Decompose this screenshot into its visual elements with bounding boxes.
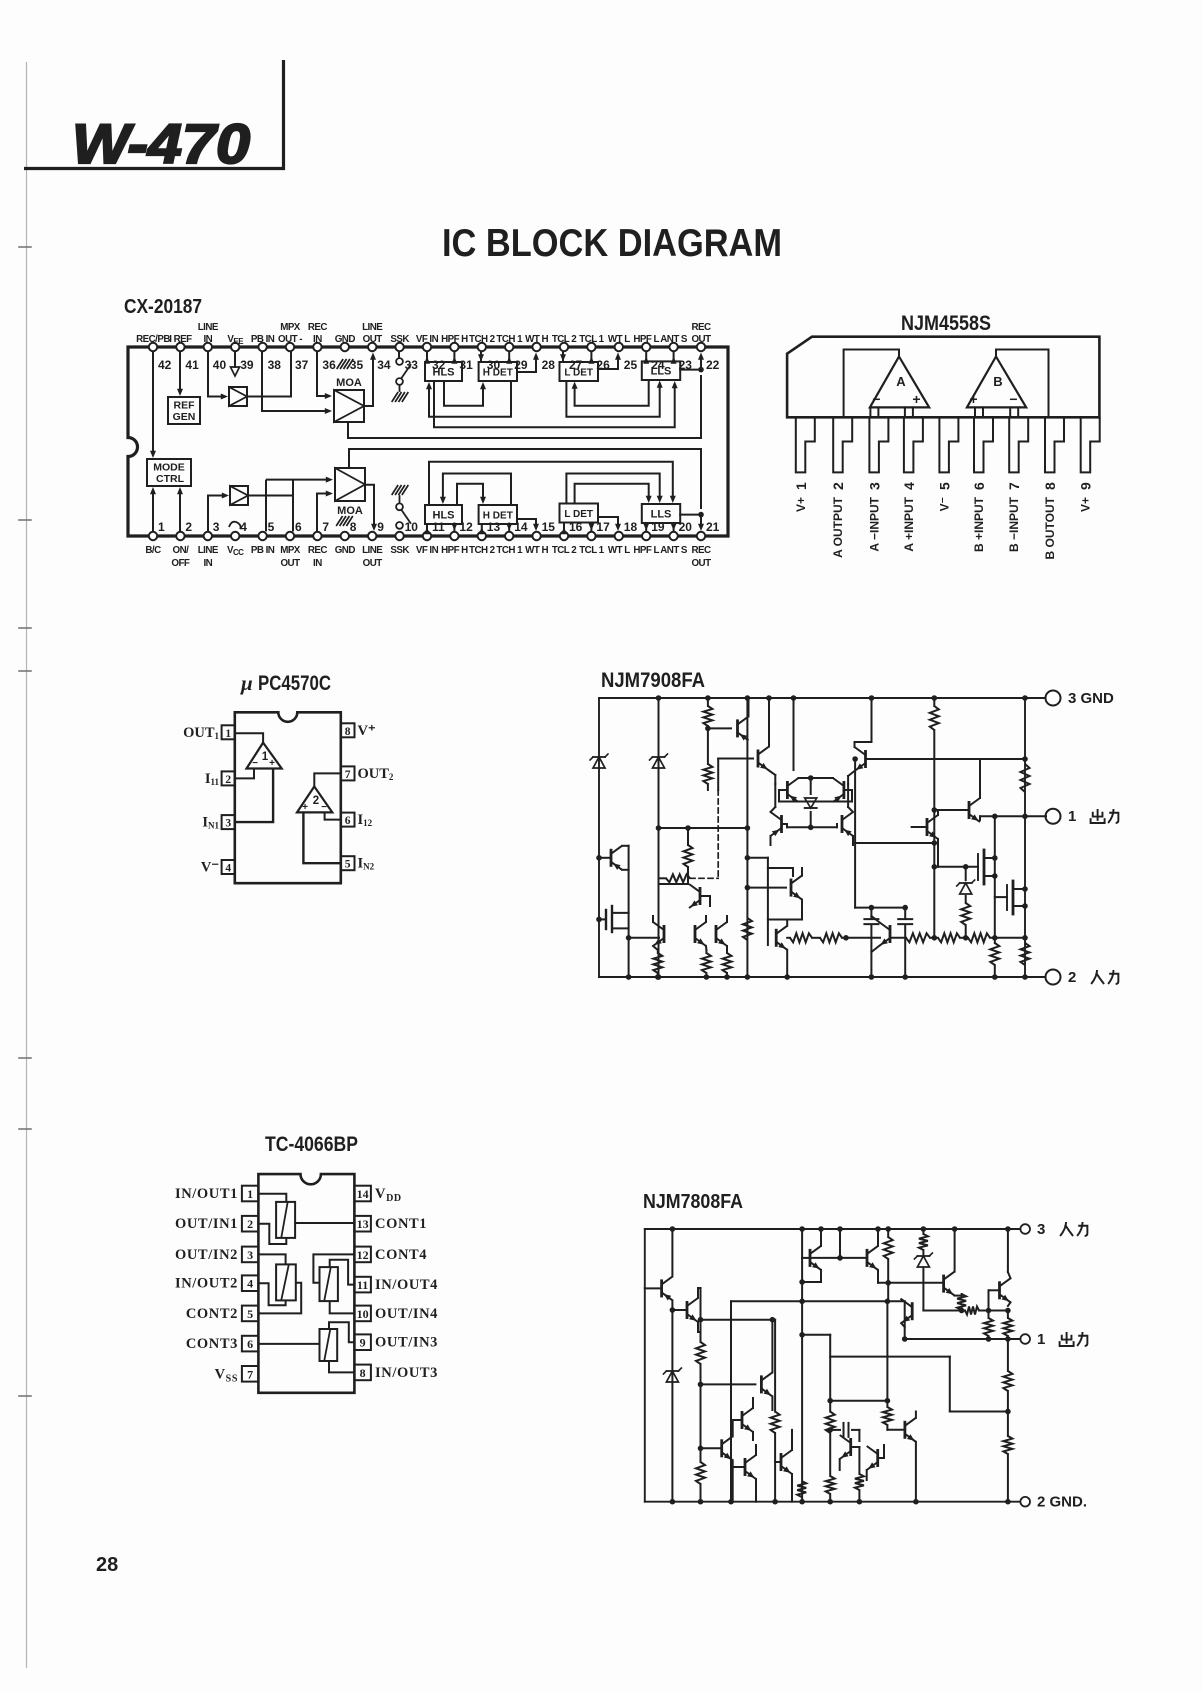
wire pin31 to block xyxy=(451,352,457,364)
wire output node xyxy=(980,814,1046,820)
svg-text:4: 4 xyxy=(901,482,917,490)
transistor Q15 bottom-left c xyxy=(716,916,727,950)
pin 42 (top) xyxy=(136,334,172,372)
pin 24 (top) xyxy=(633,334,664,372)
wire pin42 to MODE CTRL xyxy=(150,352,156,458)
svg-text:+: + xyxy=(269,758,275,769)
package outline TC-4066BP xyxy=(258,1174,354,1393)
resistor R13 xyxy=(990,938,999,980)
wire H843 link xyxy=(852,756,937,846)
pin 8 NJM4558S xyxy=(1042,417,1064,559)
margin rule left xyxy=(26,62,28,1668)
wire pin20 to block xyxy=(671,523,677,531)
svg-text:TCH 2: TCH 2 xyxy=(469,334,496,345)
transistor Q1 top-left xyxy=(645,1226,675,1310)
wire pin8 to SW3 xyxy=(329,1361,354,1373)
wire op-amp B output to pin8 xyxy=(996,350,1049,418)
vertical bus V672 xyxy=(670,1307,676,1504)
wire pin36 to MOA1 xyxy=(317,352,332,399)
transistor QE low sense xyxy=(887,1412,918,1505)
transistor Q4 center xyxy=(701,1317,776,1410)
svg-text:3: 3 xyxy=(866,482,882,490)
svg-text:NJM7908FA: NJM7908FA xyxy=(601,669,705,692)
svg-text:CONT1: CONT1 xyxy=(375,1216,427,1232)
pin 10 TC-4066BP xyxy=(354,1306,438,1322)
svg-text:LLS: LLS xyxy=(651,366,672,378)
resistor R11 top right xyxy=(930,695,939,938)
wire op-amp A output to pin2 xyxy=(844,350,899,418)
transistor Q11 bottom center-left xyxy=(731,1445,756,1502)
pin 7 uPC4570C xyxy=(341,766,394,782)
wire pin11 to SW4 xyxy=(330,1260,355,1285)
pin 37 (top) xyxy=(278,322,309,372)
svg-text:A −INPUT: A −INPUT xyxy=(867,496,881,551)
vertical bus V830 xyxy=(826,1335,835,1505)
svg-text:PB IN: PB IN xyxy=(251,545,275,556)
LLS block (bottom) xyxy=(642,504,680,523)
transistor Q12 xyxy=(747,868,802,920)
wire pin27 into L DET xyxy=(560,352,566,362)
package outline uPC4570C xyxy=(235,712,341,883)
svg-text:TC-4066BP: TC-4066BP xyxy=(265,1133,358,1156)
transistor Q13 mid lower xyxy=(731,1398,753,1440)
wire pin13 to block xyxy=(479,524,485,534)
svg-text:9: 9 xyxy=(1078,482,1094,490)
pin 2 (bottom) xyxy=(171,520,192,569)
svg-text:HPF H: HPF H xyxy=(441,545,468,556)
wire pin29 to block xyxy=(506,352,512,364)
svg-text:40: 40 xyxy=(213,358,227,372)
zener D4 with resistor xyxy=(957,864,975,938)
svg-text:B −INPUT: B −INPUT xyxy=(1007,496,1021,552)
wire H DET to pin15 xyxy=(517,519,539,531)
vertical bus V859 xyxy=(855,1447,864,1504)
wire H907 link xyxy=(855,843,908,910)
svg-text:CONT3: CONT3 xyxy=(186,1336,238,1352)
transistor Q4 xyxy=(689,884,710,908)
svg-text:8: 8 xyxy=(345,726,351,738)
svg-text:TCL 2: TCL 2 xyxy=(552,545,577,556)
resistor R4c xyxy=(723,950,732,980)
ground pin35 xyxy=(337,359,354,369)
vertical bus V775 xyxy=(771,1320,780,1505)
svg-text:OUT/IN3: OUT/IN3 xyxy=(375,1335,438,1351)
IC uPC4570C title xyxy=(240,671,331,695)
svg-text:TCL 1: TCL 1 xyxy=(579,334,604,345)
svg-text:7: 7 xyxy=(345,769,351,781)
svg-text:MPX: MPX xyxy=(280,545,301,556)
svg-text:A +INPUT: A +INPUT xyxy=(902,496,916,551)
terminal 1 output xyxy=(1046,808,1119,825)
pin 29 (top) xyxy=(496,334,527,372)
resistor R5 mid xyxy=(743,913,752,940)
wire pin13 CONT1 to SW1 xyxy=(295,1222,354,1224)
small resistor R bottom1 xyxy=(797,1481,806,1497)
feedback loop HLS-HDET inner (top) xyxy=(444,381,486,406)
wire ladder H858 xyxy=(747,858,768,945)
svg-text:SSK: SSK xyxy=(390,545,409,556)
svg-text:GEN: GEN xyxy=(173,411,196,423)
wire pin32 to block xyxy=(424,352,430,364)
svg-text:12: 12 xyxy=(357,1248,369,1262)
svg-text:ANT S: ANT S xyxy=(660,545,688,556)
op-amp 2 uPC4570C xyxy=(297,787,332,814)
vertical bus V802 xyxy=(799,1226,805,1504)
wire pin19 to block xyxy=(643,523,649,531)
IC TC-4066BP title xyxy=(265,1133,358,1156)
svg-text:H DET: H DET xyxy=(483,368,513,379)
feedback loop LDET-LLS inner (bottom) xyxy=(575,484,652,504)
feedback loop HLS-LLS long (bottom) xyxy=(429,462,676,505)
pin 28 (top) xyxy=(525,334,555,372)
svg-text:REC/PB: REC/PB xyxy=(136,334,170,345)
VEE arrow pin39 xyxy=(231,352,240,376)
transistor Q6 xyxy=(718,695,775,790)
wire MOA2 out to pin9 xyxy=(365,485,377,531)
svg-text:4: 4 xyxy=(225,863,231,875)
svg-text:2: 2 xyxy=(830,482,846,490)
svg-text:−: − xyxy=(252,758,258,769)
output rail 1 xyxy=(905,1338,1020,1340)
schematic frame top rail (3 input) xyxy=(645,1228,1020,1230)
pin 40 (top) xyxy=(198,322,227,372)
pin 4 uPC4570C xyxy=(201,860,235,876)
junction node pin22 bus xyxy=(698,353,704,373)
transistor Q17 row mid xyxy=(871,916,890,958)
op-amp A xyxy=(870,357,929,408)
wire pin1 to MODE CTRL xyxy=(150,487,156,531)
op-amp A input stems xyxy=(870,407,913,417)
svg-text:REC: REC xyxy=(308,545,328,556)
wire top-right base rail xyxy=(866,756,1028,762)
feedback column V1007 xyxy=(1003,1339,1012,1504)
svg-text:B OUTOUT: B OUTOUT xyxy=(1043,496,1057,559)
pin 25 (top) xyxy=(608,334,638,372)
svg-text:MOA: MOA xyxy=(337,505,363,517)
svg-text:2: 2 xyxy=(225,774,231,786)
svg-text:7: 7 xyxy=(247,1367,253,1381)
svg-text:VSS: VSS xyxy=(215,1366,238,1384)
wire pin2 to op-amp1 -inp xyxy=(235,769,254,779)
svg-text:5: 5 xyxy=(268,520,275,534)
svg-text:IN: IN xyxy=(203,334,212,345)
pin 20 (bottom) xyxy=(660,520,692,556)
feedback loop wires xyxy=(830,1357,1008,1412)
transistor Q21 (mos) xyxy=(995,881,1028,914)
wire long vertical Vb3 xyxy=(745,698,751,980)
svg-text:VDD: VDD xyxy=(375,1186,402,1204)
svg-text:A OUTPUT: A OUTPUT xyxy=(831,496,845,558)
svg-text:IN/OUT2: IN/OUT2 xyxy=(175,1276,238,1292)
wire pin38 to MOA1 xyxy=(262,352,332,414)
svg-text:+: + xyxy=(912,391,920,407)
svg-text:TCH 1: TCH 1 xyxy=(496,545,523,556)
wire L DET to pin18 xyxy=(598,517,621,531)
pin 27 (top) xyxy=(552,334,583,372)
wire pin9 to SW3 xyxy=(329,1322,354,1342)
svg-text:V+: V+ xyxy=(1079,497,1093,512)
pin 41 (top) xyxy=(169,334,199,372)
svg-text:5: 5 xyxy=(247,1307,253,1321)
svg-text:IN: IN xyxy=(313,558,322,569)
resistor RV961 xyxy=(957,1294,966,1311)
IC NJM7808FA title xyxy=(643,1191,743,1213)
logo frame lines xyxy=(24,60,284,169)
svg-text:−: − xyxy=(872,391,880,407)
transistor Q8 mirror left xyxy=(779,778,811,802)
svg-text:21: 21 xyxy=(706,520,720,534)
HLS block (top) xyxy=(425,362,462,381)
wire base H1282 xyxy=(878,1280,944,1286)
wire pin30 into H DET xyxy=(478,352,484,362)
svg-text:L DET: L DET xyxy=(564,368,593,379)
svg-text:IC BLOCK DIAGRAM: IC BLOCK DIAGRAM xyxy=(442,222,782,265)
resistor R12 right rail xyxy=(1021,764,1030,792)
transistor QB high-side xyxy=(989,1226,1011,1306)
svg-text:ON/: ON/ xyxy=(173,545,190,556)
wire pin24 to block xyxy=(643,352,649,364)
pin 21 (bottom) xyxy=(691,520,719,569)
svg-text:LINE: LINE xyxy=(198,545,219,556)
long horizontal H1301 xyxy=(731,1299,905,1305)
svg-text:I11: I11 xyxy=(205,771,220,787)
op-amp MOA (top) xyxy=(334,377,364,422)
vertical bus Vb2 with resistors xyxy=(703,695,712,790)
pin 1 NJM4558S xyxy=(793,417,815,512)
svg-text:PC4570C: PC4570C xyxy=(258,672,331,695)
capacitor C1 xyxy=(830,1423,859,1437)
vertical bus V731 xyxy=(728,1301,734,1504)
wire L DET to pin25 xyxy=(598,353,621,370)
wire pin2 to SW1 xyxy=(258,1224,286,1244)
pin 10 (bottom) xyxy=(390,520,418,556)
svg-text:2: 2 xyxy=(1068,969,1076,986)
buffer amp A1 (top) xyxy=(229,387,247,406)
svg-text:VCC: VCC xyxy=(227,545,244,557)
terminal 3 input xyxy=(1020,1221,1087,1238)
transistor Q2 xyxy=(672,1288,700,1332)
pin 2 TC-4066BP xyxy=(175,1216,258,1232)
transistor QA driver xyxy=(938,1226,962,1295)
svg-text:IN/OUT4: IN/OUT4 xyxy=(375,1277,438,1293)
op-amp 1 uPC4570C xyxy=(247,743,282,769)
transistor Q20 (mos) xyxy=(978,850,995,884)
feedback loop HDET-HLS outer (bottom) xyxy=(440,474,511,506)
wire H1334 xyxy=(799,1332,830,1338)
svg-text:OUT: OUT xyxy=(363,334,383,345)
pin 5 TC-4066BP xyxy=(186,1306,259,1322)
resistor R14 xyxy=(1021,943,1030,965)
wire Vb6 xyxy=(992,816,998,938)
svg-text:14: 14 xyxy=(357,1187,369,1201)
wire op-amp1 out to pin1 xyxy=(235,733,263,742)
svg-text:6: 6 xyxy=(971,482,987,490)
wire vertical bus Vb1 xyxy=(626,846,632,980)
schematic frame bottom rail (2 input) xyxy=(599,976,1045,978)
svg-text:11: 11 xyxy=(432,520,445,534)
svg-text:28: 28 xyxy=(542,358,556,372)
svg-text:CONT4: CONT4 xyxy=(375,1247,427,1263)
svg-text:−: − xyxy=(321,802,327,813)
svg-text:8: 8 xyxy=(350,520,357,534)
svg-text:HPF H: HPF H xyxy=(441,334,468,345)
wire pin5 to MOA2 xyxy=(266,477,333,532)
svg-text:HLS: HLS xyxy=(433,367,455,379)
wire pin5 CONT2 to SW2 xyxy=(258,1283,301,1314)
svg-text:WT L: WT L xyxy=(608,545,630,556)
svg-text:6: 6 xyxy=(345,815,351,827)
wire pin1 to SW1 xyxy=(258,1194,286,1202)
svg-text:W-470: W-470 xyxy=(72,112,250,175)
svg-text:IN/OUT1: IN/OUT1 xyxy=(175,1186,238,1202)
pin 1 (bottom) xyxy=(145,520,165,556)
zener D1 xyxy=(590,754,608,768)
wire H DET to pin28 xyxy=(517,353,539,373)
svg-text:V⁻: V⁻ xyxy=(937,497,951,511)
transistor Q16 row driver xyxy=(768,920,790,980)
resistor R4b xyxy=(702,950,711,980)
transistor Q1 xyxy=(596,846,628,870)
pin 8 (bottom) xyxy=(335,520,357,556)
svg-text:OUT: OUT xyxy=(363,558,383,569)
pin 14 TC-4066BP xyxy=(354,1186,401,1204)
svg-text:7: 7 xyxy=(1006,482,1022,490)
pin 9 (bottom) xyxy=(362,520,384,569)
svg-text:28: 28 xyxy=(96,1554,118,1576)
svg-text:CONT2: CONT2 xyxy=(186,1306,238,1322)
pin 1 TC-4066BP xyxy=(175,1186,258,1202)
wire pin5 to op-amp2 +inp xyxy=(303,812,340,863)
HLS block (bottom) xyxy=(425,505,462,524)
IC CX-20187 title xyxy=(124,296,202,318)
wire H866 xyxy=(934,866,978,868)
svg-text:TCH 1: TCH 1 xyxy=(496,334,523,345)
SSK switch pin10 xyxy=(392,485,411,529)
horizontal H1310 xyxy=(923,1307,1010,1315)
svg-text:4: 4 xyxy=(247,1277,253,1291)
svg-text:I REF: I REF xyxy=(169,334,192,345)
pin 7 NJM4558S xyxy=(1006,417,1028,552)
zener D1 xyxy=(663,1368,681,1382)
transistor Q9 mirror right xyxy=(811,778,852,802)
svg-text:V+: V+ xyxy=(794,497,808,512)
svg-text:3: 3 xyxy=(213,520,220,534)
wire diff emitter stubs xyxy=(775,775,848,784)
IC NJM4558S title xyxy=(901,312,991,335)
pin 3 uPC4570C xyxy=(202,815,234,831)
pin 13 (bottom) xyxy=(469,520,500,556)
pin 7 TC-4066BP xyxy=(215,1366,259,1384)
zener D2 column xyxy=(914,1226,932,1310)
svg-text:A: A xyxy=(896,374,906,389)
svg-text:+: + xyxy=(302,802,308,813)
svg-text:3 GND: 3 GND xyxy=(1068,690,1114,707)
pin 16 (bottom) xyxy=(552,520,583,556)
feedback loop HLS-LLS long (top) xyxy=(434,381,678,427)
svg-text:GND: GND xyxy=(335,545,356,556)
pin 38 (top) xyxy=(251,334,281,372)
wire pin26 to block xyxy=(588,352,594,364)
resistor RV888 top xyxy=(884,1226,893,1301)
svg-text:REC: REC xyxy=(691,322,711,333)
pin 1 uPC4570C xyxy=(183,725,235,741)
pin 15 (bottom) xyxy=(525,520,555,556)
svg-text:7: 7 xyxy=(322,520,329,534)
pin 11 TC-4066BP xyxy=(354,1277,438,1293)
svg-text:REC: REC xyxy=(308,322,328,333)
wire pin3 to op-amp1 +inp xyxy=(235,769,273,823)
svg-text:5: 5 xyxy=(936,482,952,490)
zener D2 on bus xyxy=(650,695,668,980)
transistor Q7 top-right pair xyxy=(848,695,874,776)
wire pin40 to A1 xyxy=(208,352,228,400)
wire pin12 to block xyxy=(451,523,457,531)
transistor Q2 (jfet) xyxy=(596,906,628,932)
svg-text:37: 37 xyxy=(295,358,309,372)
wire ladder H919 xyxy=(768,919,802,921)
svg-text:42: 42 xyxy=(158,358,172,372)
wire MOA2 to REC OUT bus (bottom) xyxy=(349,449,701,509)
pin 8 uPC4570C xyxy=(341,723,376,739)
svg-text:LINE: LINE xyxy=(198,322,219,333)
wire A2 out to pin6 xyxy=(248,480,293,532)
transistor Q9 xyxy=(840,1430,860,1470)
capacitor C1 xyxy=(864,908,878,980)
pin 39 (top) xyxy=(227,334,253,372)
svg-text:LLS: LLS xyxy=(651,509,672,521)
svg-text:WT H: WT H xyxy=(525,334,548,345)
terminal 1 output xyxy=(1020,1331,1087,1348)
svg-text:OFF: OFF xyxy=(171,558,190,569)
pin 2 NJM4558S xyxy=(830,417,852,558)
pin 7 (bottom) xyxy=(308,520,330,569)
pin 14 (bottom) xyxy=(496,520,527,556)
pin 12 TC-4066BP xyxy=(354,1247,427,1263)
svg-text:V⁺: V⁺ xyxy=(358,723,376,739)
svg-text:39: 39 xyxy=(240,358,254,372)
feedback loop LDET-LLS outer (top) xyxy=(566,381,662,417)
svg-text:B +INPUT: B +INPUT xyxy=(972,496,986,552)
terminal 2 GND xyxy=(1020,1494,1087,1511)
svg-text:22: 22 xyxy=(706,358,720,372)
MODE CTRL block xyxy=(147,459,191,486)
svg-text:13: 13 xyxy=(357,1217,369,1231)
svg-text:3: 3 xyxy=(1037,1221,1045,1238)
wire pin7 to MOA2 xyxy=(317,491,333,532)
svg-text:GND: GND xyxy=(335,334,356,345)
svg-text:μ: μ xyxy=(240,671,253,695)
package outline NJM4558S xyxy=(787,337,1099,418)
pin 13 TC-4066BP xyxy=(354,1216,427,1232)
terminal 3 GND xyxy=(1046,690,1115,707)
pin 5 (bottom) xyxy=(251,520,275,556)
svg-text:38: 38 xyxy=(268,358,282,372)
wire mirror top stub xyxy=(791,695,797,770)
svg-text:IN/OUT3: IN/OUT3 xyxy=(375,1365,438,1381)
svg-text:IN1: IN1 xyxy=(202,815,219,831)
schematic frame top rail (3 GND) xyxy=(599,697,1045,699)
svg-text:1: 1 xyxy=(262,751,269,763)
svg-text:HLS: HLS xyxy=(433,510,455,522)
wire pin6 to op-amp2 -inp xyxy=(325,812,341,819)
pin 32 (top) xyxy=(416,334,446,372)
W-470 model logo xyxy=(72,112,250,175)
svg-text:V⁻: V⁻ xyxy=(201,860,219,876)
SSK switch pin33 xyxy=(392,352,411,402)
wire MOA1 to REC OUT bus (top) xyxy=(348,375,701,438)
pin 9 TC-4066BP xyxy=(354,1334,438,1350)
pin 4 TC-4066BP xyxy=(175,1275,258,1291)
